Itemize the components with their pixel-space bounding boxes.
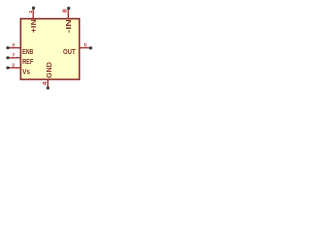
pin 4 junction dot: [46, 86, 49, 89]
svg-text:-IN: -IN: [64, 19, 73, 33]
svg-text:2: 2: [12, 63, 16, 68]
IC body U1: [21, 19, 80, 80]
pin 4 (GND) wire: [47, 79, 49, 88]
pin 5 (OUT) wire: [79, 47, 90, 49]
svg-text:+IN: +IN: [29, 19, 38, 33]
pin 8 junction dot: [67, 7, 70, 10]
svg-text:1: 1: [28, 10, 33, 14]
svg-text:5: 5: [84, 43, 88, 48]
pin 5 junction dot: [89, 46, 92, 49]
pin 8 (-IN) wire: [67, 8, 69, 19]
svg-text:3: 3: [12, 43, 16, 48]
pin 1 (+IN) wire: [32, 8, 34, 19]
pin 1 junction dot: [32, 6, 35, 9]
svg-text:Vs: Vs: [22, 67, 30, 76]
pin 3 (ENB) wire: [8, 47, 21, 49]
svg-text:8: 8: [62, 9, 68, 13]
svg-text:GND: GND: [44, 62, 53, 79]
svg-text:OUT: OUT: [63, 47, 76, 56]
pin 7 junction dot: [6, 56, 9, 59]
svg-text:7: 7: [12, 53, 16, 58]
svg-text:ENB: ENB: [22, 47, 34, 56]
pin 2 junction dot: [6, 66, 9, 69]
pin 7 (REF) wire: [8, 57, 21, 59]
pin 3 junction dot: [6, 46, 9, 49]
svg-text:REF: REF: [22, 57, 33, 66]
pin 2 (Vs) wire: [8, 67, 21, 69]
svg-text:4: 4: [43, 81, 49, 85]
